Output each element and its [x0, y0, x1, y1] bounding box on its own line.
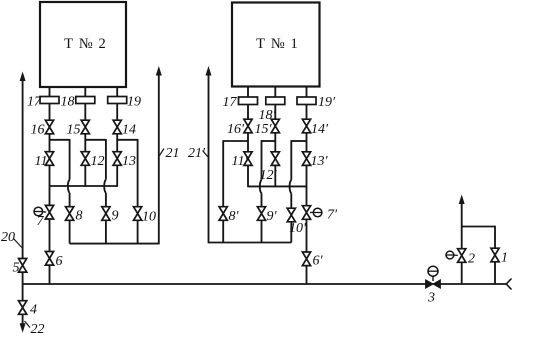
svg-text:16′: 16′ — [227, 122, 245, 137]
wire down to valve 10prime upper part — [290, 140, 292, 180]
valve 11 — [45, 152, 53, 166]
svg-text:9: 9 — [112, 209, 119, 224]
svg-text:19: 19 — [127, 95, 141, 110]
insert 17prime — [239, 97, 258, 105]
actuator circle of valve 3 — [428, 266, 438, 276]
control valve 3 — [426, 280, 441, 288]
svg-text:15: 15 — [67, 123, 81, 138]
valve 16prime — [244, 119, 252, 133]
wire valve6p to main line — [306, 266, 308, 284]
svg-text:20: 20 — [1, 230, 15, 245]
hop of valve9p line over manifold — [260, 180, 262, 194]
branch wire to valve8 line — [50, 139, 70, 141]
valve 15 — [81, 120, 89, 134]
wire insert19p to valve14p — [306, 105, 308, 120]
hop of valve9 line over manifold — [104, 180, 106, 194]
wire down to valve 9prime upper part — [261, 140, 263, 180]
svg-text:8′: 8′ — [229, 209, 240, 224]
pipe stub from T2 to insert 19 — [116, 87, 118, 97]
valve 16 — [45, 120, 53, 134]
wire valve6 to main line — [49, 265, 51, 284]
leader of label 21prime — [203, 151, 208, 157]
heater box T No.1 — [232, 3, 320, 87]
svg-text:17: 17 — [27, 95, 42, 110]
actuator circle of valve 7 — [34, 207, 43, 216]
link actuator to valve 7prime — [310, 212, 313, 214]
wire valve5 through main to valve4 — [22, 272, 24, 301]
svg-text:16: 16 — [31, 123, 45, 138]
main line end break mark — [506, 279, 511, 290]
valve 10prime — [287, 208, 295, 222]
wire valve13p to valve7p — [306, 165, 308, 206]
valve 1 — [491, 248, 499, 262]
valve 14prime — [302, 119, 310, 133]
svg-text:14: 14 — [122, 123, 136, 138]
wire valve12p to manifold — [274, 165, 276, 187]
pipe stub from T1 to insert 18p — [274, 87, 276, 98]
wire down to valve 10 — [137, 139, 139, 207]
insert 19 — [108, 97, 127, 104]
wire valve2 to main line — [461, 262, 463, 284]
hop of valve10p line over manifold — [290, 180, 292, 194]
stem of valve 3 actuator — [432, 276, 434, 281]
svg-text:9′: 9′ — [267, 209, 278, 224]
branch wire to valve10p line — [291, 140, 306, 142]
pipe stub from T2 to insert 17 — [49, 87, 51, 97]
drain arrowhead 22 — [20, 323, 26, 333]
wire valve8p to drain manifold — [222, 220, 224, 242]
svg-text:Т № 2: Т № 2 — [64, 36, 107, 52]
svg-text:15′: 15′ — [255, 122, 273, 137]
actuator circle of valve 7prime — [313, 208, 322, 217]
wire valve16p to valve11p — [247, 133, 249, 152]
wire valve4 to drain arrow — [22, 314, 24, 325]
wire valve15p to valve12p — [274, 133, 276, 152]
wire bypass down to valve 1 — [494, 226, 496, 249]
arrowhead of supply riser — [20, 72, 26, 82]
valve 15prime — [271, 119, 279, 133]
link actuator to valve 2 — [454, 254, 458, 256]
branch wire to valve9p line — [262, 140, 276, 142]
valve 2 — [458, 249, 466, 263]
wire valve1 to main line — [494, 262, 496, 284]
riser 21prime — [208, 75, 210, 244]
link actuator to valve 7 — [43, 211, 47, 213]
valve 9prime — [257, 207, 265, 221]
wire down to valve 10prime lower part — [290, 193, 292, 208]
valve 11prime — [244, 152, 252, 166]
wire insert17p to valve16p — [247, 105, 249, 120]
wire valve13 to manifold corner — [116, 165, 118, 187]
wire valve11p to manifold corner — [247, 165, 249, 187]
svg-text:5: 5 — [13, 261, 20, 276]
wire insert17 to valve16 — [49, 104, 51, 121]
wire insert18p to valve15p — [274, 105, 276, 120]
riser to arrow above valve 2 — [461, 203, 463, 249]
valve 9 — [102, 207, 110, 221]
wire valve9 to drain manifold — [105, 220, 107, 243]
wire valve14 to valve13 — [116, 134, 118, 152]
hop of valve8 line over manifold — [68, 180, 70, 194]
leader of label 21 — [160, 149, 165, 156]
supply riser with top arrow — [22, 81, 24, 259]
bypass top wire — [462, 226, 495, 228]
valve 10 — [134, 207, 142, 221]
leader of label 20 — [14, 239, 22, 248]
branch wire to valve9 line — [85, 139, 106, 141]
wire insert19 to valve14 — [116, 104, 118, 121]
wire down to valve 8prime — [222, 140, 224, 207]
svg-text:14′: 14′ — [311, 122, 329, 137]
svg-text:7′: 7′ — [327, 208, 338, 223]
branch wire to valve10 line — [117, 139, 137, 141]
wire valve11 to valve7 — [49, 165, 51, 205]
svg-text:19′: 19′ — [318, 95, 336, 110]
arrowhead of riser 21 — [156, 66, 162, 76]
valve 7 — [45, 205, 53, 219]
svg-text:6: 6 — [56, 254, 63, 269]
pipe stub from T2 to insert 18 — [84, 87, 86, 97]
valve 12prime — [271, 152, 279, 166]
insert 17 — [40, 97, 59, 104]
branch wire to valve8p line — [223, 140, 248, 142]
svg-text:10: 10 — [142, 210, 156, 225]
wire valve7p to valve6p — [306, 219, 308, 252]
wire valve16 to valve11 — [49, 134, 51, 152]
main condensate line — [23, 283, 507, 285]
svg-text:2: 2 — [468, 252, 475, 267]
svg-text:11: 11 — [35, 154, 48, 169]
drain manifold of T2 group — [70, 243, 159, 245]
arrowhead of riser 21prime — [206, 66, 212, 76]
wire down to valve 8 lower part — [69, 193, 71, 207]
arrowhead above valve 2 — [459, 195, 465, 205]
svg-text:Т № 1: Т № 1 — [256, 36, 299, 52]
insert 18 — [76, 97, 95, 104]
valve 6 — [45, 252, 53, 266]
crossover manifold — [50, 185, 118, 187]
actuator circle of valve 2 — [446, 251, 454, 259]
wire valve7 to valve6 — [49, 219, 51, 252]
svg-text:18: 18 — [61, 95, 75, 110]
valve 8 — [66, 207, 74, 221]
svg-text:17′: 17′ — [223, 95, 241, 110]
svg-text:22: 22 — [31, 322, 45, 334]
svg-text:11′: 11′ — [232, 154, 249, 169]
valve 7prime — [302, 206, 310, 220]
pipe stub from T1 to insert 17p — [247, 87, 249, 98]
wire valve15 to valve12 — [84, 134, 86, 152]
wire down to valve 9 upper part — [105, 139, 107, 180]
valve 13 — [113, 152, 121, 166]
svg-text:1: 1 — [501, 251, 508, 266]
wire down to valve 9 lower part — [105, 193, 107, 207]
valve 13prime — [302, 152, 310, 166]
svg-text:6′: 6′ — [313, 254, 324, 269]
svg-text:3: 3 — [427, 291, 435, 306]
svg-text:13′: 13′ — [311, 154, 329, 169]
wire valve12 to manifold — [84, 165, 86, 187]
riser 21 — [158, 75, 160, 245]
wire valve10p to drain manifold — [290, 222, 292, 243]
valve 4 — [19, 301, 27, 315]
valve 14 — [113, 120, 121, 134]
svg-text:7: 7 — [37, 214, 45, 229]
wire insert18 to valve15 — [84, 104, 86, 121]
insert 18prime — [266, 97, 285, 105]
drain manifold of T1 group — [209, 242, 292, 244]
insert 19prime — [297, 97, 316, 105]
valve 8prime — [219, 207, 227, 221]
pipe stub from T1 to insert 19p — [306, 87, 308, 98]
heater box T No.2 — [40, 2, 126, 87]
crossover manifold of T1 group — [248, 185, 307, 187]
wire valve8 to drain manifold — [69, 220, 71, 243]
valve 5 — [19, 259, 27, 273]
wire valve9p to drain manifold — [261, 220, 263, 242]
svg-text:4: 4 — [30, 303, 37, 318]
wire down to valve 8 upper part — [69, 139, 71, 180]
svg-text:12: 12 — [91, 154, 105, 169]
svg-text:13: 13 — [122, 154, 136, 169]
valve 6prime — [302, 252, 310, 266]
wire down to valve 9prime lower part — [261, 193, 263, 207]
wire valve14p to valve13p — [306, 133, 308, 152]
svg-text:21′: 21′ — [188, 146, 206, 161]
valve 12 — [81, 152, 89, 166]
svg-text:8: 8 — [76, 209, 83, 224]
wire valve10 to drain manifold — [137, 220, 139, 243]
leader of label 22 — [25, 321, 31, 328]
svg-text:21: 21 — [166, 146, 180, 161]
